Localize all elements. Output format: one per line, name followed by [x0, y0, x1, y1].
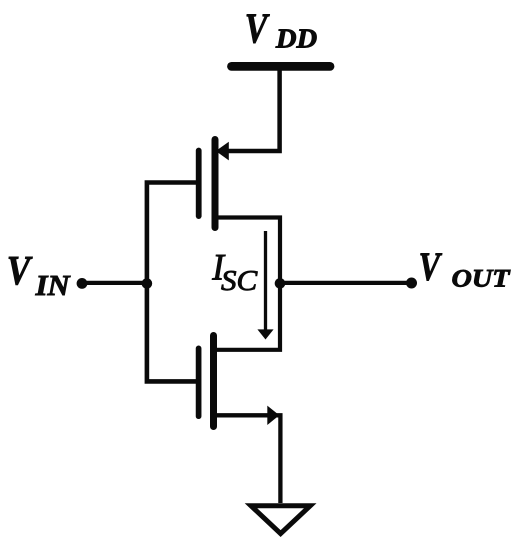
label V_IN	[7, 247, 72, 302]
transistor M1 PMOS channel bar	[212, 140, 219, 228]
svg-text:V: V	[245, 6, 270, 52]
label I_SC	[211, 247, 258, 297]
wire PMOS drain, output rail, NMOS drain	[213, 218, 280, 350]
terminal dot V_IN	[77, 278, 88, 289]
wire V_IN to gate rail	[82, 281, 147, 285]
transistor M1 PMOS gate bar	[196, 151, 202, 217]
node output junction	[275, 278, 286, 289]
svg-text:SC: SC	[221, 265, 258, 297]
wire VDD stub down to PMOS source	[222, 70, 280, 151]
power rail VDD bar	[232, 62, 331, 71]
terminal dot V_OUT	[406, 278, 417, 289]
svg-text:V: V	[7, 247, 34, 293]
svg-text:OUT: OUT	[452, 266, 512, 293]
transistor M2 NMOS source arrowhead	[267, 406, 279, 425]
transistor M1 PMOS source arrowhead	[216, 142, 229, 161]
svg-text:DD: DD	[275, 24, 317, 54]
current arrow I_SC line	[264, 231, 267, 331]
wire NMOS source and ground stub	[213, 415, 280, 503]
ground symbol	[251, 506, 310, 534]
label V_DD	[245, 6, 317, 53]
current arrow I_SC head	[257, 329, 273, 339]
svg-text:IN: IN	[35, 271, 72, 302]
node input junction	[142, 278, 153, 289]
wire PMOS gate to rail, gate rail down, to NMOS gate	[147, 183, 198, 382]
svg-text:V: V	[419, 244, 443, 289]
transistor M2 NMOS gate bar	[196, 348, 202, 416]
label V_OUT	[419, 244, 512, 292]
transistor M2 NMOS channel bar	[210, 336, 217, 427]
wire V_OUT	[280, 281, 412, 285]
